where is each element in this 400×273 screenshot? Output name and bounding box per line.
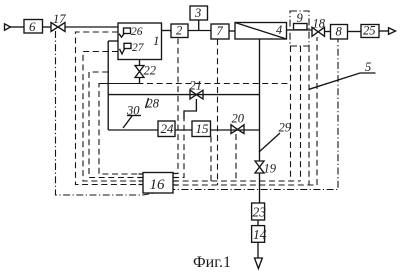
svg-text:20: 20 bbox=[232, 112, 245, 126]
svg-text:7: 7 bbox=[217, 24, 224, 38]
svg-text:9: 9 bbox=[297, 11, 304, 25]
svg-text:15: 15 bbox=[196, 121, 210, 136]
svg-text:14: 14 bbox=[253, 227, 267, 242]
svg-text:29: 29 bbox=[279, 121, 292, 135]
svg-text:26: 26 bbox=[131, 26, 143, 38]
svg-text:28: 28 bbox=[147, 97, 160, 111]
svg-text:24: 24 bbox=[161, 121, 175, 136]
svg-text:Фиг.1: Фиг.1 bbox=[193, 254, 231, 271]
svg-text:16: 16 bbox=[150, 177, 166, 193]
svg-text:18: 18 bbox=[313, 17, 326, 31]
svg-text:22: 22 bbox=[144, 64, 157, 78]
svg-text:23: 23 bbox=[253, 205, 267, 220]
svg-text:4: 4 bbox=[276, 23, 282, 37]
svg-text:5: 5 bbox=[365, 60, 371, 74]
svg-text:17: 17 bbox=[53, 12, 66, 26]
svg-text:27: 27 bbox=[132, 42, 145, 54]
svg-text:30: 30 bbox=[126, 104, 140, 118]
svg-text:2: 2 bbox=[176, 24, 182, 38]
svg-text:8: 8 bbox=[336, 25, 343, 39]
svg-text:3: 3 bbox=[194, 6, 201, 20]
svg-text:25: 25 bbox=[363, 24, 376, 38]
svg-text:6: 6 bbox=[29, 19, 36, 34]
svg-text:21: 21 bbox=[190, 79, 203, 93]
svg-text:1: 1 bbox=[153, 33, 160, 48]
svg-text:19: 19 bbox=[264, 162, 277, 176]
